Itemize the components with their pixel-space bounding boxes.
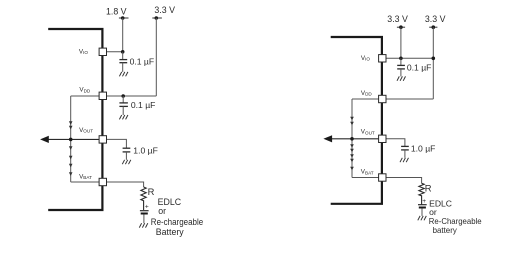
pin VOUT (left) <box>79 127 106 143</box>
supply 3.3 V (right, first) <box>387 14 408 29</box>
ground (under C4) <box>397 76 406 80</box>
wire VDD pin to rail 2 (right) <box>382 98 433 100</box>
resistor R (right) <box>419 183 432 205</box>
node junction rail1 x VIO wire <box>399 57 403 61</box>
svg-text:battery: battery <box>433 225 458 235</box>
flow arrow 6 (right) <box>350 159 354 163</box>
capacitor C1 0.1uF (left VIO) <box>119 52 154 72</box>
svg-text:VOUT: VOUT <box>79 127 93 134</box>
pin VIO (right) <box>361 55 386 62</box>
node junction rail2 x VIO wire <box>432 57 436 61</box>
ground (under battery, left) <box>139 223 148 227</box>
svg-text:VDD: VDD <box>361 90 373 97</box>
flow arrow 3 <box>69 146 73 150</box>
svg-text:VDD: VDD <box>79 87 91 94</box>
node junction on VIO wire <box>121 50 125 54</box>
wire VBAT pin to resistor <box>103 182 144 187</box>
node junction VOUT x arrow line (right) <box>350 137 354 141</box>
ground (under C2) <box>119 115 128 119</box>
pin VBAT (right) <box>361 169 386 182</box>
wire VOUT with left arrow (right) <box>331 138 383 140</box>
flow arrow 5 <box>69 164 73 168</box>
svg-text:1.0 µF: 1.0 µF <box>411 143 436 153</box>
flow arrow 7 (right) <box>350 167 354 171</box>
arrowhead VOUT (right circuit) <box>323 135 332 142</box>
flow arrow 4 <box>69 156 73 160</box>
wire VBAT pin left segment (right) <box>352 177 382 179</box>
pin VOUT (right) <box>361 129 386 143</box>
wire VBAT pin left segment <box>71 181 103 183</box>
svg-text:3.3 V: 3.3 V <box>154 5 175 15</box>
capacitor C2 0.1uF (left VDD) <box>119 96 155 115</box>
svg-text:or: or <box>158 206 166 216</box>
ground (under battery, right) <box>418 216 427 220</box>
capacitor C5 1.0uF (right VOUT) <box>401 143 435 158</box>
svg-text:R: R <box>425 183 432 194</box>
svg-text:3.3 V: 3.3 V <box>425 14 446 24</box>
wire VDD pin to 3.3V rail <box>103 95 156 97</box>
wire VIO pin to rails (right) <box>382 57 433 59</box>
wire 3.3V rail 1 down to VIO wire <box>400 27 402 58</box>
pin VBAT (left) <box>79 173 106 185</box>
supply 1.8 V (left) <box>106 6 129 20</box>
svg-text:VIO: VIO <box>79 48 88 55</box>
wire VBAT pin to resistor (right) <box>382 178 421 184</box>
ground (under C3) <box>122 160 131 164</box>
battery/EDLC symbol (right) with + <box>418 198 427 216</box>
svg-text:Re-chargeable: Re-chargeable <box>151 217 203 227</box>
resistor R (left) <box>141 186 155 210</box>
ground (under C5) <box>400 158 409 162</box>
flow arrow 5 (right) <box>350 154 354 158</box>
svg-text:+: + <box>145 204 149 211</box>
node junction on VDD wire <box>121 94 125 98</box>
wire 3.3V rail down to VDD wire <box>155 18 157 96</box>
svg-text:0.1 µF: 0.1 µF <box>130 56 155 66</box>
wire VDD pin left segment to arrow line <box>71 95 103 97</box>
pin VIO (left) <box>79 48 107 55</box>
flow arrow 1 <box>69 121 73 125</box>
wire VIO pin to 1.8V node <box>103 51 123 53</box>
supply 3.3 V (right, second) <box>425 14 446 29</box>
flow arrow 3 (right) <box>350 144 354 148</box>
pin VDD (left) <box>79 87 106 100</box>
arrowhead VOUT (left) <box>40 136 49 143</box>
label EDLC / or / Re-Chargeable / battery (right) <box>429 199 482 235</box>
wire current path VDD to VBAT (right, vertical with flow arrows) <box>351 99 353 178</box>
wire 1.8V rail to VIO node <box>122 18 124 52</box>
flow arrow 1 (right) <box>350 117 354 121</box>
flow arrow 2 <box>69 126 73 130</box>
svg-text:VOUT: VOUT <box>361 129 375 136</box>
supply 3.3 V (left) <box>152 5 175 20</box>
IC U1 (left, partial outline) <box>48 29 102 210</box>
capacitor C4 0.1uF (right VIO) <box>397 58 431 76</box>
svg-text:VBAT: VBAT <box>361 169 374 176</box>
svg-text:VIO: VIO <box>361 55 370 62</box>
wire VOUT pin to C3 <box>103 139 126 148</box>
capacitor C3 1.0uF (left VOUT) <box>123 145 158 160</box>
svg-text:Battery: Battery <box>156 227 184 237</box>
IC U2 (right, partial outline) <box>331 37 382 204</box>
svg-text:1.0 µF: 1.0 µF <box>133 145 158 155</box>
svg-text:R: R <box>148 186 155 197</box>
pin VDD (right) <box>361 90 386 103</box>
battery/EDLC symbol (left) with + <box>140 204 149 224</box>
svg-text:0.1 µF: 0.1 µF <box>131 100 156 110</box>
node junction VOUT x arrow line <box>69 138 73 142</box>
flow arrow 6 <box>69 172 73 176</box>
svg-text:3.3 V: 3.3 V <box>387 14 408 24</box>
wire VOUT with left arrow <box>47 138 103 140</box>
wire VDD pin left segment to arrow line (right) <box>352 98 382 100</box>
label EDLC / or / Re-chargeable / Battery (left) <box>151 197 203 237</box>
wire current path VDD to VBAT (vertical with flow arrows) <box>70 96 72 182</box>
svg-text:VBAT: VBAT <box>79 173 92 180</box>
svg-text:0.1 µF: 0.1 µF <box>407 62 432 72</box>
wire VOUT pin to C5 (right) <box>382 139 405 146</box>
wire 3.3V rail 2 down to VDD wire <box>432 27 434 99</box>
svg-text:1.8 V: 1.8 V <box>106 6 127 16</box>
flow arrow 4 (right) <box>350 149 354 153</box>
ground (under C1) <box>119 72 128 76</box>
flow arrow 2 (right) <box>350 122 354 126</box>
